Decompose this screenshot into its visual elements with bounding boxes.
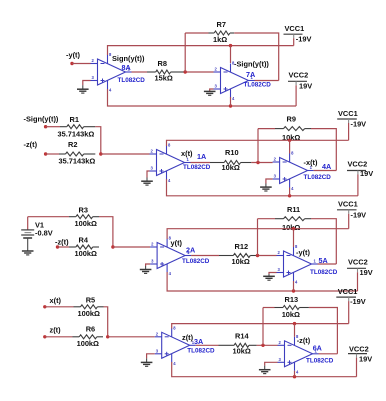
value TL082CD U2A <box>182 258 210 265</box>
wire node D up to R13 <box>262 308 264 346</box>
wire node B up to R9 <box>257 129 259 163</box>
junction U6A bottom pin row4 <box>293 375 296 378</box>
resistor R8 15k <box>147 59 184 83</box>
label y(t) U2A <box>171 239 183 248</box>
junction U5A top pin row3 <box>292 227 295 230</box>
wire U2A +input to ground <box>146 264 151 266</box>
resistor R1 35.7143k <box>58 115 96 138</box>
power VCC1 row4 -19V <box>336 287 365 324</box>
svg-text:10kΩ: 10kΩ <box>232 257 250 266</box>
svg-text:100kΩ: 100kΩ <box>78 309 100 318</box>
svg-text:1A: 1A <box>197 152 206 161</box>
svg-text:VCC2: VCC2 <box>348 160 368 169</box>
resistor R9 10k <box>275 115 311 143</box>
svg-text:TL082CD: TL082CD <box>306 357 334 364</box>
wire U4A output <box>314 170 337 172</box>
wire -z(t) to R2 <box>46 153 59 155</box>
wire R8 to node A <box>184 71 214 73</box>
svg-text:TL082CD: TL082CD <box>304 174 332 181</box>
label -x(t) U4A <box>304 158 318 167</box>
wire -z(t) to R4 <box>58 246 70 248</box>
resistor R10 10k <box>210 148 251 172</box>
label z(t) U3A <box>182 333 194 342</box>
wire U7A top pin <box>230 46 232 63</box>
ground U4A <box>260 184 272 192</box>
svg-text:TL082CD: TL082CD <box>182 258 210 265</box>
svg-text:y(t): y(t) <box>171 239 183 248</box>
svg-text:R13: R13 <box>285 295 299 304</box>
node D junction dot <box>261 344 264 347</box>
svg-text:-Sign(y(t)): -Sign(y(t)) <box>234 60 269 69</box>
resistor R6 100k <box>73 325 104 348</box>
wire U6A bottom pin <box>294 371 296 377</box>
wire U8A +input to ground <box>83 81 91 86</box>
wire VCC2 rail row4 (bottom) <box>172 362 357 377</box>
junction U4A bottom pin row2 <box>288 194 291 197</box>
svg-text:4A: 4A <box>322 162 331 171</box>
resistor R2 35.7143k <box>59 140 96 166</box>
label x(t) U1A <box>181 149 193 158</box>
op-amp U6A TL082CD <box>278 334 319 375</box>
svg-text:10kΩ: 10kΩ <box>222 163 240 172</box>
svg-text:19V: 19V <box>299 82 312 91</box>
wire VCC1 rail row1 <box>108 46 294 55</box>
wire R5 to join row4 <box>104 307 108 337</box>
power VCC1 row1 -19V <box>284 24 312 46</box>
svg-text:R8: R8 <box>158 59 167 68</box>
svg-text:35.7143kΩ: 35.7143kΩ <box>59 157 96 166</box>
svg-text:R10: R10 <box>225 148 239 157</box>
wire U6A top pin <box>294 324 296 337</box>
svg-text:6A: 6A <box>313 344 322 353</box>
svg-text:-z(t): -z(t) <box>297 336 311 345</box>
wire U6A +input to ground <box>265 362 278 365</box>
svg-text:19V: 19V <box>360 268 373 277</box>
value TL082CD U3A <box>187 347 215 354</box>
ground U6A <box>259 366 271 374</box>
wire VCC1 rail row4 <box>172 324 349 329</box>
svg-text:-19V: -19V <box>296 35 312 44</box>
junction R5/R6 join <box>106 335 109 338</box>
svg-text:7A: 7A <box>246 70 255 79</box>
wire join to U3A inverting input <box>108 336 155 338</box>
svg-text:10kΩ: 10kΩ <box>282 310 300 319</box>
ground U8A <box>77 85 89 93</box>
svg-text:2A: 2A <box>186 246 195 255</box>
svg-text:z(t): z(t) <box>182 333 194 342</box>
svg-text:-z(t): -z(t) <box>24 140 38 149</box>
wire U8A output to R8 <box>132 71 148 73</box>
wire R14 to node D <box>257 344 278 346</box>
power VCC2 row4 19V <box>348 344 372 376</box>
junction U5A bottom pin row3 <box>292 289 295 292</box>
power VCC1 row2 -19V <box>337 109 366 140</box>
junction U7A bottom pin row1 <box>229 104 232 107</box>
resistor R14 10k <box>219 332 257 356</box>
wire VCC2 rail row3 (bottom) <box>167 272 357 291</box>
value TL082CD U6A <box>306 357 334 364</box>
wire R11 right to U5A output <box>311 219 336 264</box>
wire U1A output to R10 <box>191 162 211 164</box>
wire U6A output <box>319 353 338 355</box>
wire V1 to R3 <box>28 216 69 218</box>
svg-text:TL082CD: TL082CD <box>118 77 146 84</box>
wire R13 left <box>263 307 275 309</box>
wire VCC1 rail row3 <box>167 229 349 239</box>
ground V1 <box>22 251 34 255</box>
designator 5A <box>319 256 328 265</box>
input terminal node -z(t) row3 <box>55 237 69 248</box>
svg-text:-y(t): -y(t) <box>296 248 310 257</box>
svg-text:TL082CD: TL082CD <box>187 347 215 354</box>
power VCC2 row2 19V <box>347 160 373 196</box>
designator 7A <box>246 70 255 79</box>
ground U7A <box>204 91 216 95</box>
designator 8A <box>122 63 131 72</box>
svg-text:-19V: -19V <box>351 120 367 129</box>
wire node C up to R11 <box>257 219 259 256</box>
svg-text:VCC1: VCC1 <box>338 287 358 296</box>
svg-text:R7: R7 <box>217 20 226 29</box>
designator 4A <box>322 162 331 171</box>
svg-text:VCC2: VCC2 <box>348 258 368 267</box>
wire VCC2 rail row2 (bottom) <box>167 179 358 196</box>
svg-text:-x(t): -x(t) <box>304 158 318 167</box>
svg-text:VCC1: VCC1 <box>338 109 358 118</box>
wire U2A output to R12 <box>191 255 219 257</box>
dc source V1 -0.8V <box>21 217 53 251</box>
svg-text:1kΩ: 1kΩ <box>213 35 227 44</box>
wire node A up to R7 <box>184 33 186 72</box>
input terminal node -Sign(y(t)) <box>24 114 59 128</box>
wire U4A top pin <box>289 140 291 153</box>
resistor R3 100k <box>69 205 99 228</box>
wire join to U2A inverting input <box>113 246 150 248</box>
svg-text:R5: R5 <box>86 295 95 304</box>
op-amp U7A TL082CD <box>214 61 255 102</box>
op-amp U3A TL082CD <box>155 325 196 366</box>
resistor R4 100k <box>69 236 99 259</box>
svg-text:100kΩ: 100kΩ <box>77 339 99 348</box>
svg-text:-y(t): -y(t) <box>66 51 80 60</box>
svg-text:R9: R9 <box>287 115 296 124</box>
svg-text:R11: R11 <box>287 205 300 214</box>
svg-text:35.7143kΩ: 35.7143kΩ <box>58 129 95 138</box>
svg-text:3A: 3A <box>194 337 203 346</box>
value TL082CD U5A <box>310 269 338 276</box>
input terminal node -y(t) <box>66 51 80 66</box>
op-amp U1A TL082CD <box>150 143 191 184</box>
wire -y(t) to U8A inverting input <box>72 63 91 65</box>
wire join to U1A inverting input <box>101 153 150 155</box>
svg-text:VCC1: VCC1 <box>285 24 305 33</box>
svg-text:z(t): z(t) <box>50 326 62 335</box>
svg-text:x(t): x(t) <box>50 296 62 305</box>
wire x(t) to R5 <box>45 306 74 308</box>
resistor R5 100k <box>74 295 104 318</box>
resistor R12 10k <box>219 242 257 266</box>
svg-text:-Sign(y(t)): -Sign(y(t)) <box>24 114 59 123</box>
wire to R7 left <box>185 32 208 34</box>
svg-text:19V: 19V <box>359 355 372 364</box>
junction R1/R2 join <box>99 152 102 155</box>
wire U5A top pin <box>293 229 295 247</box>
junction U7A top pin on VCC1 rail <box>229 44 232 47</box>
svg-text:-19V: -19V <box>350 297 366 306</box>
svg-text:TL082CD: TL082CD <box>310 269 338 276</box>
label -Sign(y(t)) U7A <box>234 60 269 69</box>
svg-text:100kΩ: 100kΩ <box>75 249 97 258</box>
svg-text:-z(t): -z(t) <box>55 237 69 246</box>
svg-text:10kΩ: 10kΩ <box>233 347 251 356</box>
designator 2A <box>186 246 195 255</box>
svg-text:R6: R6 <box>86 325 95 334</box>
ground U2A <box>140 266 152 273</box>
svg-text:VCC1: VCC1 <box>338 200 358 209</box>
svg-text:19V: 19V <box>360 169 373 178</box>
input terminal node -z(t) row2 <box>24 140 48 156</box>
designator 6A <box>313 344 322 353</box>
wire U1A +input to ground <box>147 171 150 178</box>
value TL082CD U7A <box>244 82 272 89</box>
svg-text:R4: R4 <box>79 236 89 245</box>
svg-text:R12: R12 <box>235 242 249 251</box>
wire R1 to join <box>95 127 101 154</box>
value TL082CD U4A <box>304 174 332 181</box>
wire R9 right to U4A output <box>311 129 336 171</box>
node B junction dot <box>256 161 259 164</box>
ground U1A <box>141 178 153 186</box>
op-amp U5A TL082CD <box>277 244 318 285</box>
wire U7A +input to ground <box>210 89 214 91</box>
wire -Sign(y(t)) to R1 <box>46 126 60 128</box>
svg-text:-0.8V: -0.8V <box>35 229 53 238</box>
svg-text:R14: R14 <box>235 332 249 341</box>
svg-text:R3: R3 <box>79 205 88 214</box>
ground U3A <box>141 358 153 366</box>
wire VCC2 rail row1 (bottom) <box>108 89 297 106</box>
value TL082CD U1A <box>183 164 211 171</box>
junction U6A top pin row4 <box>293 322 296 325</box>
wire z(t) to R6 <box>45 336 73 338</box>
svg-text:VCC2: VCC2 <box>289 71 309 80</box>
svg-text:15kΩ: 15kΩ <box>155 73 173 82</box>
svg-text:x(t): x(t) <box>181 149 193 158</box>
wire U7A output <box>255 80 279 82</box>
wire U5A bottom pin <box>293 281 295 291</box>
svg-text:R2: R2 <box>68 140 77 149</box>
wire R7 right to U7A output <box>234 33 279 81</box>
wire R13 right to U6A output <box>309 308 338 354</box>
input terminal node z(t) <box>43 326 61 339</box>
svg-text:10kΩ: 10kΩ <box>282 223 300 232</box>
node C junction dot <box>256 254 259 257</box>
junction R3/R4 join <box>111 245 114 248</box>
value TL082CD U8A <box>118 77 146 84</box>
wire R10 to node B <box>251 162 272 164</box>
op-amp U8A TL082CD <box>91 52 132 93</box>
designator 1A <box>197 152 206 161</box>
svg-text:-19V: -19V <box>351 210 367 219</box>
wire U3A output to R14 <box>196 344 219 346</box>
op-amp U4A TL082CD <box>273 151 314 192</box>
svg-text:TL082CD: TL082CD <box>244 82 272 89</box>
label -y(t) U5A <box>296 248 310 257</box>
resistor R7 1k <box>209 20 235 44</box>
wire U5A output <box>318 263 337 265</box>
op-amp U2A TL082CD <box>150 236 191 277</box>
label -z(t) U6A <box>297 336 311 345</box>
wire R3 to join row3 <box>99 217 113 247</box>
ground U5A <box>263 274 275 280</box>
svg-text:8A: 8A <box>122 63 131 72</box>
wire VCC1 rail row2 <box>167 140 349 146</box>
power VCC2 row1 19V <box>288 71 312 107</box>
svg-text:TL082CD: TL082CD <box>183 164 211 171</box>
power VCC1 row3 -19V <box>337 200 366 229</box>
wire R11 left <box>258 218 276 220</box>
input terminal node x(t) <box>43 296 61 308</box>
junction U4A top pin row2 <box>288 139 291 142</box>
label Sign(y(t)) U8A <box>112 54 145 63</box>
power VCC2 row3 19V <box>347 258 373 292</box>
resistor R11 10k <box>275 205 311 232</box>
wire U5A +input to ground <box>269 273 277 275</box>
wire U3A +input to ground <box>147 354 155 359</box>
resistor R13 10k <box>275 295 309 319</box>
svg-text:100kΩ: 100kΩ <box>75 219 97 228</box>
wire U7A bottom pin <box>230 97 232 106</box>
svg-text:Sign(y(t)): Sign(y(t)) <box>112 54 145 63</box>
wire R9 left <box>258 128 275 130</box>
wire R12 to node C <box>257 255 277 257</box>
wire U4A bottom pin <box>289 188 291 196</box>
designator 3A <box>194 337 203 346</box>
svg-text:VCC2: VCC2 <box>349 344 369 353</box>
wire U4A +input to ground <box>266 179 273 184</box>
node A junction dot <box>184 70 187 73</box>
svg-text:R1: R1 <box>70 115 79 124</box>
